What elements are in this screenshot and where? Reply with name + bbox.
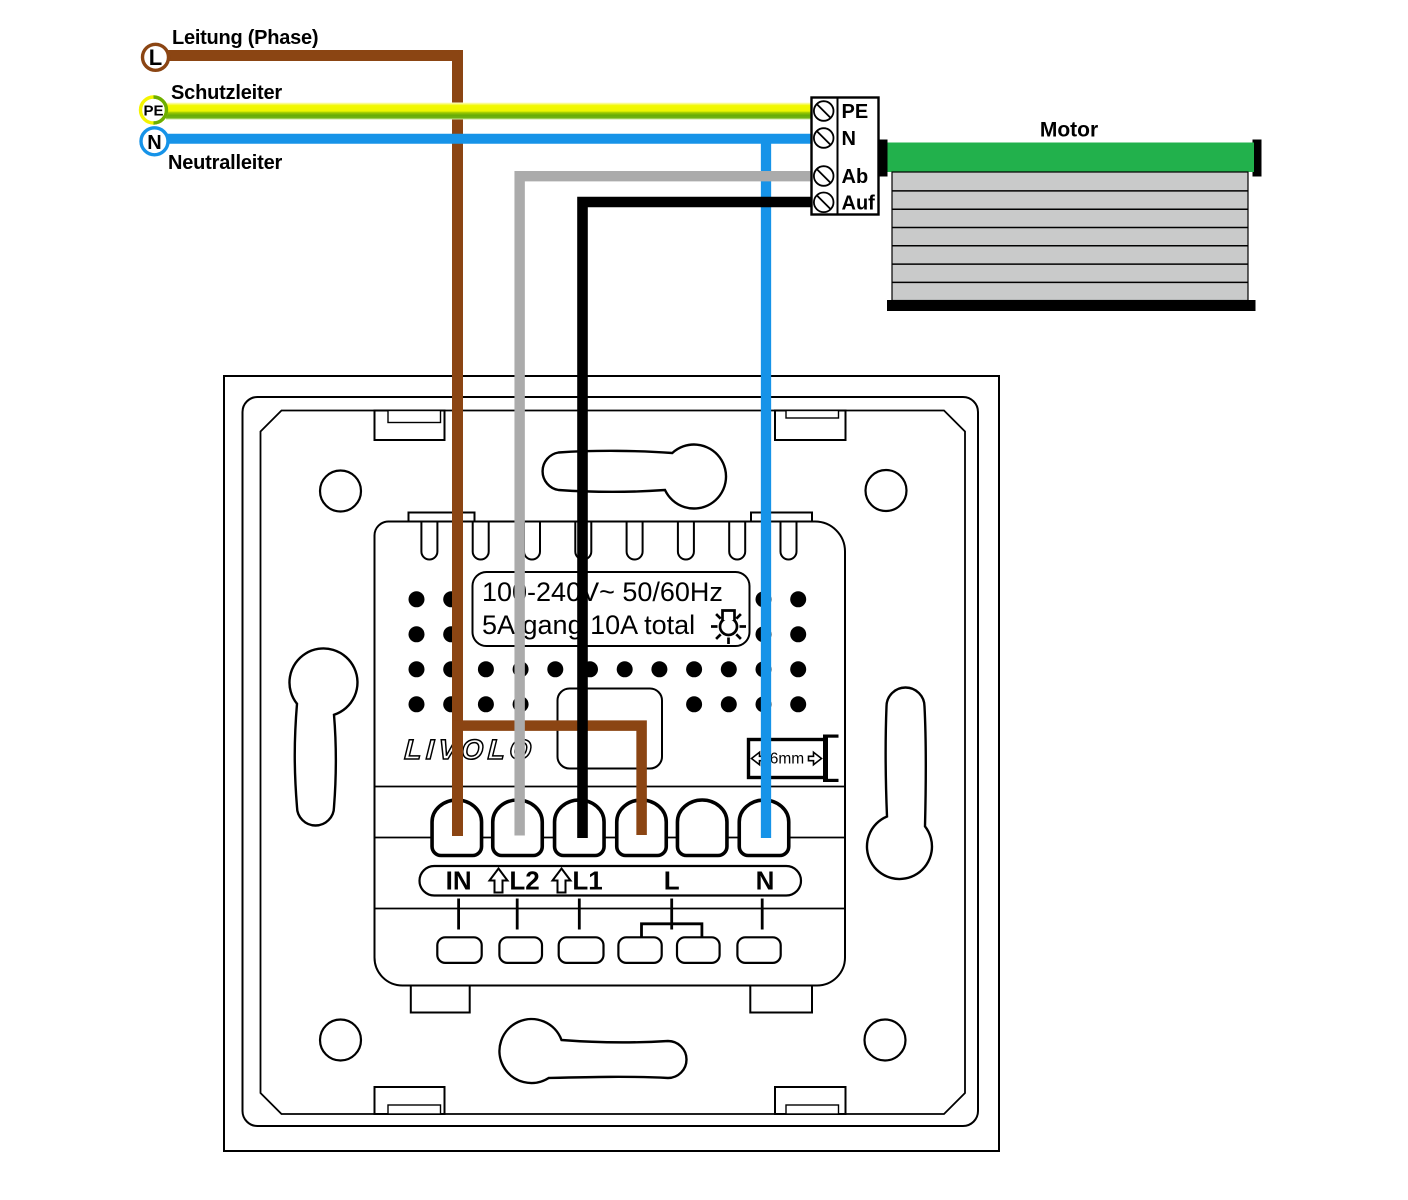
svg-text:Schutzleiter: Schutzleiter — [171, 82, 282, 104]
module comb prong 8 — [781, 522, 797, 560]
contact pad 6 — [737, 937, 780, 963]
module bottom tab right — [750, 986, 812, 1013]
svg-text:Auf: Auf — [842, 193, 876, 215]
wire black Auf — [583, 202, 812, 838]
terminal label strip — [420, 866, 802, 896]
node PE (protective earth) — [141, 97, 167, 123]
screw PE — [814, 101, 834, 121]
wall box outer square — [224, 376, 999, 1151]
plate keyhole slot right — [867, 688, 932, 880]
plate screw hole top-right — [866, 470, 907, 511]
plate tab top-right — [775, 411, 846, 441]
svg-text:N: N — [756, 866, 775, 896]
wire brown phase L — [168, 56, 458, 837]
module comb prong 3 — [524, 522, 540, 560]
terminal well 6 — [739, 800, 789, 856]
contact lead L1 — [578, 899, 581, 930]
module separation line mid (behind terminals) — [375, 837, 846, 839]
plate keyhole slot bottom — [499, 1019, 686, 1083]
6mm strip gauge box — [749, 740, 827, 778]
module comb prong 6 — [678, 522, 694, 560]
svg-text:PE: PE — [143, 103, 163, 120]
L terminal bridge bracket — [642, 924, 702, 938]
svg-text:N: N — [147, 132, 161, 154]
mounting plate rounded square — [243, 397, 979, 1126]
node L (phase) — [143, 44, 169, 70]
module top mounting tab left — [409, 513, 475, 522]
strip gauge left arrow — [752, 752, 765, 764]
contact pad 1 — [437, 937, 481, 963]
module comb prong 2 — [473, 522, 489, 560]
contact pad 4 — [618, 937, 661, 963]
blind slat line 3 — [892, 227, 1248, 229]
motor shaft left cap — [879, 140, 888, 177]
module comb prong 1 — [421, 522, 437, 560]
svg-text:Ab: Ab — [842, 166, 869, 188]
strip gauge bracket — [823, 735, 828, 783]
terminal well 1 — [432, 800, 482, 856]
plate keyhole slot top — [543, 445, 726, 509]
svg-text:PE: PE — [842, 101, 869, 123]
module separation line lower — [375, 908, 846, 910]
screw N — [814, 128, 834, 148]
blind bottom bar — [887, 300, 1256, 311]
wire brown branch to L terminal — [453, 726, 642, 835]
terminal well 2 — [493, 800, 543, 856]
screw Ab — [814, 166, 834, 186]
label L1 up-arrow — [553, 869, 571, 893]
lamp load icon — [711, 611, 746, 645]
plate keyhole slot left — [289, 648, 357, 825]
module comb prong 4 — [575, 522, 591, 560]
label L2 up-arrow — [490, 869, 508, 893]
terminal block body — [812, 98, 879, 215]
node N (neutral) — [141, 128, 168, 155]
svg-text:Leitung (Phase): Leitung (Phase) — [172, 27, 318, 49]
screw Auf — [814, 193, 834, 213]
contact pad 3 — [559, 937, 604, 963]
wire blue neutral vertical — [761, 139, 771, 838]
plate tab bottom-right — [775, 1087, 846, 1114]
terminal well 5 — [677, 800, 727, 856]
svg-text:L2: L2 — [509, 866, 539, 896]
blind slat line 5 — [892, 263, 1248, 265]
contact pad 2 — [499, 937, 542, 963]
module separation line upper — [375, 786, 846, 788]
plate tab top-left — [375, 411, 445, 441]
svg-text:L: L — [149, 45, 162, 70]
svg-text:L1: L1 — [572, 866, 602, 896]
plate screw hole bottom-right — [865, 1020, 906, 1061]
motor shaft right cap — [1253, 140, 1262, 177]
roller blind curtain — [892, 172, 1248, 301]
module center well — [558, 689, 663, 769]
rating label box — [473, 572, 750, 646]
contact lead L — [670, 899, 673, 930]
contact lead N — [761, 899, 764, 930]
svg-text:IN: IN — [446, 866, 472, 896]
module top mounting tab right — [751, 513, 812, 522]
svg-text:L: L — [664, 866, 680, 896]
module body — [375, 522, 846, 986]
strip gauge right arrow — [809, 752, 822, 764]
svg-text:6mm: 6mm — [770, 751, 804, 768]
plate screw hole top-left — [320, 471, 361, 512]
contact pad 5 — [677, 937, 720, 963]
plate tab bottom-left — [375, 1087, 445, 1114]
module vent dot grid — [409, 591, 807, 712]
svg-text:5A/gang 10A total: 5A/gang 10A total — [482, 610, 695, 640]
terminal well 4 — [617, 800, 667, 856]
wire gray Ab — [520, 176, 812, 835]
blind slat line 6 — [892, 281, 1248, 283]
plate inner frame with chamfered corners — [261, 411, 966, 1115]
terminal block divider — [837, 98, 839, 215]
wire blue neutral horizontal — [167, 134, 812, 144]
blind slat line 4 — [892, 245, 1248, 247]
plate screw hole bottom-left — [320, 1020, 361, 1061]
svg-text:N: N — [842, 128, 856, 150]
contact lead L2 — [516, 899, 519, 930]
module comb prong 7 — [729, 522, 745, 560]
terminal well 3 — [555, 800, 605, 856]
blind slat line 1 — [892, 190, 1248, 192]
module bottom tab left — [411, 986, 470, 1013]
svg-text:Neutralleiter: Neutralleiter — [168, 152, 283, 174]
contact lead IN — [457, 899, 460, 930]
motor green roller bar — [888, 143, 1255, 173]
module comb prong 5 — [627, 522, 643, 560]
blind slat line 2 — [892, 208, 1248, 210]
svg-text:Motor: Motor — [1040, 119, 1098, 142]
